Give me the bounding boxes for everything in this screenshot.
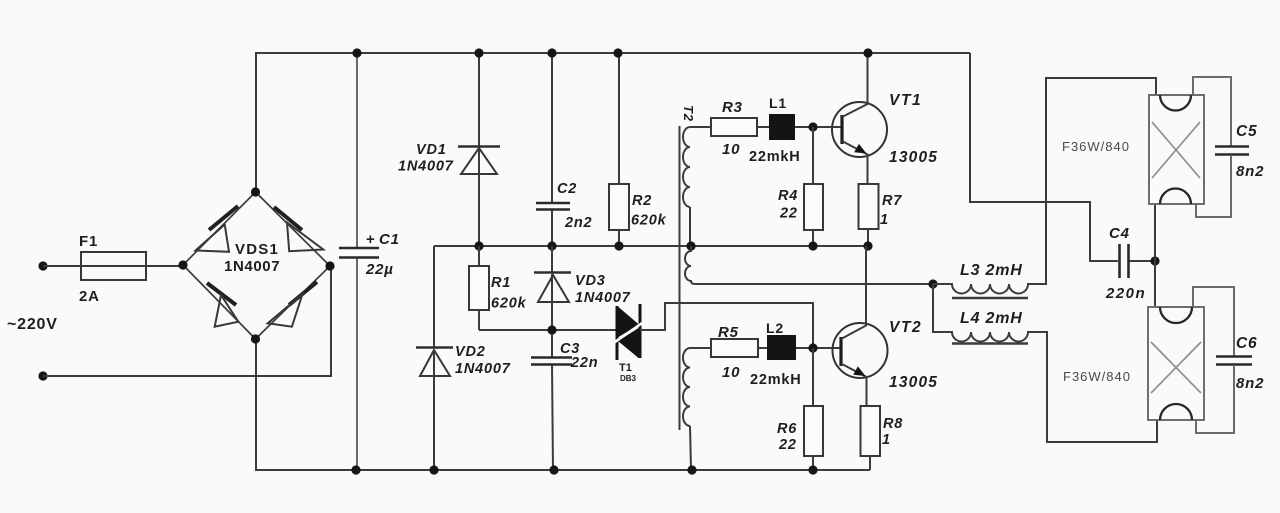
svg-text:R8: R8 (883, 416, 903, 432)
capacitor C5 (1196, 123, 1264, 217)
wire: lamp1 bottom-left pin to junction (1154, 204, 1156, 307)
svg-text:1N4007: 1N4007 (224, 258, 280, 275)
resistor R4 (778, 127, 823, 246)
svg-text:R1: R1 (491, 275, 511, 291)
svg-text:L1: L1 (769, 95, 787, 111)
svg-text:VT2: VT2 (889, 319, 922, 336)
resistor R8 (861, 406, 904, 470)
node: R4 bottom on mid rail (808, 241, 817, 250)
svg-text:C1: C1 (379, 231, 400, 248)
svg-text:F36W/840: F36W/840 (1063, 369, 1131, 384)
capacitor C6 (1196, 335, 1264, 433)
svg-text:F36W/840: F36W/840 (1062, 139, 1130, 154)
capacitor C3 (531, 330, 598, 470)
node: VT1 collector on rail (863, 48, 872, 57)
svg-text:22: 22 (779, 206, 798, 222)
node: VD1 bottom on mid rail (474, 241, 483, 250)
svg-text:T2: T2 (681, 105, 696, 122)
svg-text:VDS1: VDS1 (235, 241, 279, 258)
diode bridge arm top-left (196, 206, 239, 252)
svg-text:22n: 22n (570, 355, 598, 371)
node: C1 bottom on rail (351, 465, 360, 474)
node: VD1 top on rail (474, 48, 483, 57)
transformer T2 winding 1 (VT1 base drive) (683, 127, 711, 246)
resistor R1 (469, 246, 527, 330)
wire: mid rail (half-bridge midpoint) (434, 245, 868, 247)
svg-text:1: 1 (882, 432, 891, 448)
svg-text:VD2: VD2 (455, 344, 486, 360)
node: R2 bottom on mid rail (614, 241, 623, 250)
diode VD3 (534, 246, 631, 330)
node: R6 bottom on rail (808, 465, 817, 474)
node: VT1 base junction (808, 122, 817, 131)
wire: diac to VT2 base (640, 303, 813, 348)
node: C1 top on rail (352, 48, 361, 57)
svg-text:8n2: 8n2 (1236, 375, 1264, 392)
node: AC input terminal bottom (38, 371, 47, 380)
node: winding3 bottom on rail (687, 465, 696, 474)
svg-text:~220V: ~220V (7, 316, 58, 333)
inductor L2 (750, 320, 840, 388)
svg-text:+: + (366, 231, 376, 248)
svg-text:1: 1 (880, 212, 889, 228)
diode VD1 (398, 53, 500, 246)
node: C3 bottom on rail (549, 465, 558, 474)
svg-text:R6: R6 (777, 421, 797, 437)
node: winding1 bottom on mid rail (686, 241, 695, 250)
svg-text:22mkH: 22mkH (749, 149, 801, 165)
svg-text:2n2: 2n2 (564, 215, 592, 231)
svg-text:22mkH: 22mkH (750, 372, 802, 388)
svg-text:R5: R5 (718, 324, 739, 341)
transistor VT1 (832, 53, 938, 184)
svg-text:220n: 220n (1105, 285, 1146, 302)
svg-text:DB3: DB3 (620, 374, 637, 383)
node: C2 bottom on mid rail (547, 241, 556, 250)
svg-text:R2: R2 (632, 193, 652, 209)
transformer T2 winding 2 (primary to lamps) (685, 246, 933, 284)
svg-text:T1: T1 (619, 362, 632, 374)
inductor L4 2mH (933, 284, 1157, 442)
svg-text:13005: 13005 (889, 149, 938, 166)
svg-text:C6: C6 (1236, 335, 1257, 352)
svg-text:620k: 620k (491, 296, 527, 312)
bridge rectifier VDS1 diamond (178, 187, 334, 343)
resistor R6 (777, 348, 823, 470)
svg-text:2A: 2A (79, 288, 100, 305)
inductor L1 (749, 95, 841, 165)
svg-text:8n2: 8n2 (1236, 163, 1264, 180)
capacitor C4 (1105, 225, 1155, 302)
wire: bottom rail B- (256, 339, 870, 470)
svg-text:620k: 620k (631, 213, 667, 229)
capacitor C2 (536, 53, 592, 246)
svg-text:L3 2mH: L3 2mH (960, 262, 1023, 279)
transformer T2 core (679, 126, 681, 430)
node: VT2 base junction (808, 343, 817, 352)
svg-text:R7: R7 (882, 193, 902, 209)
diode bridge arm bottom-right (268, 282, 317, 327)
wire: top-right feed to C4 (970, 53, 1118, 261)
resistor R5 (711, 324, 767, 381)
transistor VT2 (833, 246, 939, 406)
svg-text:22µ: 22µ (365, 261, 394, 278)
wire: lamp2 top-right pin to C6 (1193, 287, 1234, 356)
svg-text:1N4007: 1N4007 (455, 361, 511, 377)
node: AC input terminal top (38, 261, 47, 270)
svg-text:C2: C2 (557, 181, 577, 197)
lamp 2 F36W/840 (1063, 307, 1204, 420)
svg-text:10: 10 (722, 141, 740, 158)
node: lamp feed junction L3/L4 (928, 279, 937, 288)
wire: top rail B+ (256, 53, 970, 192)
svg-text:VD1: VD1 (416, 142, 447, 158)
svg-text:1N4007: 1N4007 (398, 159, 454, 175)
resistor R7 (859, 184, 903, 246)
svg-text:R3: R3 (722, 99, 743, 116)
svg-text:22: 22 (778, 437, 797, 453)
diac T1 DB3 (612, 304, 645, 383)
node: VD2 bottom on rail (429, 465, 438, 474)
diode bridge arm bottom-left (207, 283, 238, 327)
svg-text:13005: 13005 (889, 374, 938, 391)
transformer T2 winding 3 (VT2 base drive) (683, 348, 711, 470)
svg-text:10: 10 (722, 364, 740, 381)
node: R2 top on rail (613, 48, 622, 57)
svg-text:L2: L2 (766, 320, 784, 336)
svg-text:C5: C5 (1236, 123, 1257, 140)
capacitor C1 electrolytic (339, 53, 400, 470)
resistor R3 (711, 99, 769, 158)
diode bridge arm top-right (274, 207, 323, 251)
svg-text:R4: R4 (778, 188, 798, 204)
node: C2 top on rail (547, 48, 556, 57)
svg-text:L4 2mH: L4 2mH (960, 310, 1023, 327)
svg-text:VD3: VD3 (575, 273, 606, 289)
svg-text:VT1: VT1 (889, 92, 922, 109)
node: C4 / lamp1 / lamp2 junction (1150, 256, 1159, 265)
wire: lamp1 top-right pin to C5 (1193, 77, 1231, 146)
svg-text:C4: C4 (1109, 225, 1130, 242)
node: R1-VD3-C3-diac junction (547, 325, 556, 334)
diode VD2 (416, 246, 511, 470)
fuse F1 (81, 252, 146, 280)
wire: phase input to fuse (43, 265, 183, 267)
inductor L3 2mH (933, 78, 1156, 298)
wire: R1/C3 node to diac (479, 329, 617, 331)
svg-text:1N4007: 1N4007 (575, 290, 631, 306)
resistor R2 (609, 53, 667, 246)
lamp 1 F36W/840 (1062, 95, 1204, 204)
node: R7 bottom / VT2 collector on mid rail (863, 241, 872, 250)
wire: neutral input to bridge right corner (43, 266, 331, 376)
svg-text:F1: F1 (79, 233, 98, 250)
